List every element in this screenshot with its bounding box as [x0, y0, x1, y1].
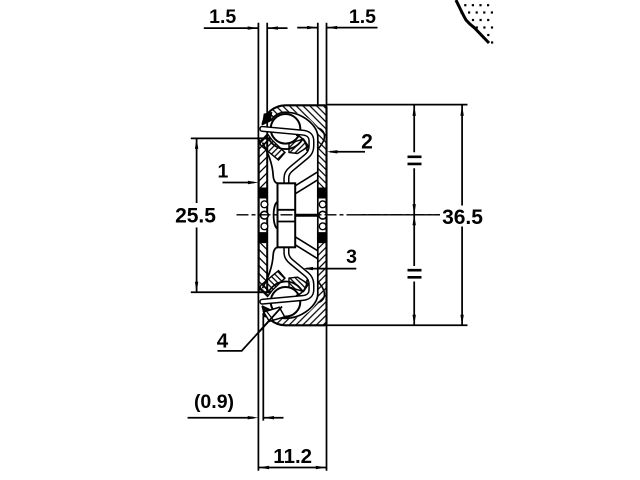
36.5 [460, 105, 463, 116]
block internal lines [278, 210, 296, 222]
dim 36.5 line [461, 105, 463, 325]
dim (0.9) line [188, 417, 284, 419]
stipple corner [456, 0, 493, 44]
block body [278, 183, 296, 247]
dim 1.5 right: line [297, 27, 377, 29]
ext lines 25.5 [191, 138, 258, 292]
ext lines 36.5 top/bottom [327, 105, 468, 326]
inner member bottom edge [259, 291, 271, 293]
equals marks [408, 157, 422, 277]
svg-text:4: 4 [217, 330, 229, 353]
dim halves line [413, 105, 415, 325]
inner member web inner line [266, 138, 268, 292]
ext line right web inner [317, 23, 319, 106]
ext line left web inner [266, 23, 268, 139]
slide section upper half [259, 105, 327, 215]
slide section lower half (mirrored) [259, 216, 327, 326]
0.9 arrows [248, 416, 259, 419]
center block [274, 183, 296, 247]
leader 1 arrow [248, 181, 259, 184]
ext line right web outer (full) [326, 23, 328, 471]
ext line 0.9 right [262, 313, 264, 421]
leader 4 [218, 307, 283, 351]
inner member top edge [259, 137, 271, 139]
thick web lines over everything [259, 138, 268, 292]
svg-text:36.5: 36.5 [442, 206, 483, 229]
svg-text:1: 1 [217, 161, 228, 183]
svg-text:(0.9): (0.9) [194, 391, 234, 413]
leader 2 [330, 151, 365, 153]
11.2 arrows [259, 466, 270, 469]
centerline dash-dot [237, 214, 441, 216]
ext line left web outer (full) [257, 23, 259, 471]
leader 1 [223, 182, 255, 184]
25.5 [195, 138, 198, 149]
window hatch tick [267, 312, 273, 320]
dim 25.5 line [196, 138, 198, 292]
inner member web outer line [258, 138, 260, 292]
svg-text:1.5: 1.5 [209, 6, 236, 28]
leader 2 arrow [327, 150, 338, 153]
leader 3 arrow [303, 267, 314, 270]
block side bump [274, 202, 282, 229]
1.5 left pair [248, 26, 259, 29]
arrowheads [195, 26, 464, 469]
leader 3 [306, 268, 356, 270]
svg-text:2: 2 [361, 131, 373, 154]
halves arrows [413, 105, 416, 116]
svg-text:11.2: 11.2 [273, 445, 312, 468]
1.5 right pair [307, 26, 318, 29]
svg-text:1.5: 1.5 [349, 6, 376, 28]
dim 11.2 line [258, 467, 326, 469]
dim 1.5 left: line [204, 27, 288, 29]
bottom flange white window [264, 307, 285, 321]
inner member top and bottom edges [259, 138, 271, 292]
leader 4 overlay on window [259, 307, 282, 333]
svg-text:25.5: 25.5 [175, 205, 216, 228]
svg-text:3: 3 [346, 246, 357, 268]
web rivet circles [261, 201, 327, 230]
